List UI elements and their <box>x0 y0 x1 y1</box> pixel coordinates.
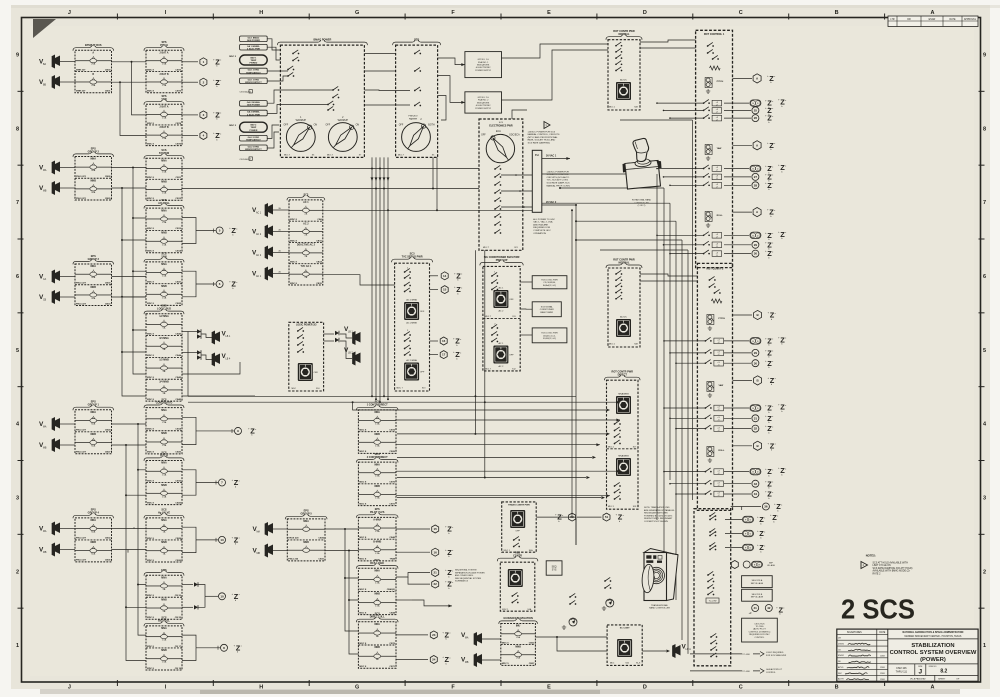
svg-text:1.5A: 1.5A <box>162 444 167 447</box>
connector hex PITCH rot1 <box>733 77 753 79</box>
svg-text:D: D <box>643 685 647 691</box>
svg-text:RCS LOGIC: RCS LOGIC <box>370 562 384 565</box>
svg-text:ECA: ECA <box>496 130 501 133</box>
svg-text:CB71: CB71 <box>389 666 395 668</box>
svg-text:1/2 MNA: 1/2 MNA <box>159 315 169 318</box>
translational hand controller <box>667 553 679 601</box>
svg-text:A: A <box>931 10 935 16</box>
svg-text:MDC 8: MDC 8 <box>147 198 155 200</box>
svg-text:50A: 50A <box>91 191 95 194</box>
wire <box>557 637 607 651</box>
switch panel ROT CONTR PWR NORMAL 2 <box>608 268 640 347</box>
svg-text:H: H <box>259 10 263 16</box>
svg-text:PNL5 22Y: PNL5 22Y <box>76 198 87 200</box>
svg-text:CB 17: CB 17 <box>175 646 182 648</box>
svg-text:BAT 1: BAT 1 <box>250 56 257 59</box>
wire <box>325 528 358 530</box>
svg-text:MNB: MNB <box>303 541 309 544</box>
svg-text:1/2 MNB: 1/2 MNB <box>159 359 169 362</box>
svg-text:1.5A: 1.5A <box>162 243 167 246</box>
wire <box>484 250 486 477</box>
wire <box>536 516 567 518</box>
wire <box>60 81 75 83</box>
svg-text:ON: ON <box>314 125 318 127</box>
svg-text:MDC 7: MDC 7 <box>485 369 492 371</box>
connector p51 <box>725 519 742 521</box>
svg-text:PNL5 22Y: PNL5 22Y <box>76 303 87 305</box>
svg-text:MDC 7: MDC 7 <box>485 316 492 318</box>
svg-text:MDC 1: MDC 1 <box>608 506 615 508</box>
svg-text:9: 9 <box>16 52 19 58</box>
connector a33 rot2 <box>724 483 751 485</box>
wire long bus I <box>397 477 586 479</box>
svg-text:CB24: CB24 <box>105 429 111 432</box>
svg-text:MDC 7: MDC 7 <box>327 154 334 156</box>
svg-text:CB30: CB30 <box>105 283 111 285</box>
output flag V LB 2 <box>353 352 361 366</box>
svg-text:G: G <box>355 10 359 16</box>
svg-text:SEP ULLAGE: SEP ULLAGE <box>751 582 764 585</box>
input flag VBB <box>52 75 60 89</box>
svg-text:CB23: CB23 <box>175 502 181 504</box>
wire <box>60 187 75 189</box>
wire <box>182 135 198 137</box>
svg-text:7: 7 <box>983 200 986 206</box>
svg-text:2 SCS: 2 SCS <box>841 593 915 625</box>
connector 26 rot1 <box>724 117 751 119</box>
connector 30 rot1 <box>724 253 751 255</box>
svg-text:REQUIRED FOR CMC: REQUIRED FOR CMC <box>749 634 770 636</box>
svg-text:MNB: MNB <box>161 541 167 544</box>
svg-text:SCHEMATICS: SCHEMATICS <box>455 580 469 583</box>
svg-text:CB44: CB44 <box>389 611 395 614</box>
svg-text:NOTE: TRANSLATION CMD: NOTE: TRANSLATION CMD <box>644 506 670 509</box>
svg-text:CONTROL DOGMETIC): CONTROL DOGMETIC) <box>749 631 771 633</box>
csol box <box>742 618 778 642</box>
svg-text:CA: CA <box>43 278 47 281</box>
svg-text:FOR SCS TAKEOVER: FOR SCS TAKEOVER <box>766 654 787 657</box>
svg-text:CB27: CB27 <box>105 452 111 454</box>
svg-text:MB: MB <box>43 552 47 554</box>
svg-text:MNB: MNB <box>374 485 380 488</box>
svg-text:(POWER): (POWER) <box>920 657 946 663</box>
svg-text:MNR 22Y: MNR 22Y <box>76 69 86 71</box>
svg-text:S4A: S4A <box>527 608 531 611</box>
svg-text:1.5A: 1.5A <box>162 296 167 299</box>
svg-text:LOGIC REQUIRED: LOGIC REQUIRED <box>766 652 784 654</box>
wire <box>60 444 75 446</box>
breaker block SCS PITCH <box>146 461 182 505</box>
svg-text:GROUP 5: GROUP 5 <box>301 513 313 516</box>
svg-text:CB40(2): CB40(2) <box>387 588 396 591</box>
svg-text:28: 28 <box>754 183 758 187</box>
svg-text:MDC 2: MDC 2 <box>229 125 237 127</box>
wire <box>640 47 696 49</box>
svg-text:CONTACTS NOT SHOWN: CONTACTS NOT SHOWN <box>644 520 668 523</box>
svg-text:ROTATIONAL HAND: ROTATIONAL HAND <box>632 199 652 202</box>
svg-text:1 CONTR/DIRECT: 1 CONTR/DIRECT <box>367 404 388 407</box>
svg-text:TO CMG: TO CMG <box>755 626 763 628</box>
power bus block EPS GROUP 4 <box>75 518 112 562</box>
svg-text:C3,C4,B3,B4,: C3,C4,B3,B4, <box>543 282 556 284</box>
svg-text:MDC: MDC <box>292 388 297 390</box>
label box GA 1 GYRO <box>240 68 268 74</box>
svg-text:CB43: CB43 <box>175 332 181 335</box>
svg-text:MNA: MNA <box>161 409 167 412</box>
svg-text:NATIONAL AERONAUTICS & SPAC: NATIONAL AERONAUTICS & SPACE ADMINISTRAT… <box>903 631 964 634</box>
svg-text:29: 29 <box>754 351 758 355</box>
switch panel ROT CONTROL PWR NORMAL 1 <box>608 40 640 110</box>
wire long bus C <box>323 209 533 211</box>
connector hex ROLL rot1 <box>733 211 753 213</box>
svg-text:12/68: 12/68 <box>880 667 885 669</box>
svg-text:AC 1/MNA: AC 1/MNA <box>406 299 417 302</box>
svg-text:J: J <box>68 10 71 16</box>
svg-text:MNB: MNB <box>91 433 97 436</box>
svg-text:6: 6 <box>983 274 986 280</box>
svg-text:Hg VALVE: Hg VALVE <box>158 512 170 515</box>
svg-text:CIRCUITS (SCS AUTO: CIRCUITS (SCS AUTO <box>547 176 570 179</box>
svg-text:FEC: FEC <box>838 673 843 675</box>
svg-text:CB: CB <box>43 299 47 301</box>
svg-text:CB34: CB34 <box>316 261 322 264</box>
svg-text:PSEUDO: PSEUDO <box>408 116 418 118</box>
svg-text:33: 33 <box>754 482 758 486</box>
svg-text:50A: 50A <box>91 276 95 279</box>
switch panel translation contacts <box>694 509 731 666</box>
svg-text:27: 27 <box>754 175 758 179</box>
svg-text:CB44: CB44 <box>175 354 181 357</box>
svg-text:IMU: IMU <box>516 625 521 628</box>
svg-text:25: 25 <box>754 109 758 113</box>
svg-text:CSOL RCS: CSOL RCS <box>754 623 765 625</box>
svg-text:B/D ROLL: B/D ROLL <box>158 620 170 623</box>
svg-text:32: 32 <box>754 427 758 431</box>
svg-text:ELECTRONICS PWR: ELECTRONICS PWR <box>489 124 513 127</box>
svg-text:MDC 1: MDC 1 <box>609 344 616 346</box>
wire <box>182 114 198 116</box>
svg-text:AC/DC: AC/DC <box>620 79 627 82</box>
wire long bus H <box>397 456 592 458</box>
connector b31 rot2 <box>724 428 751 430</box>
power bus block EPS GROUP 1 <box>75 410 112 454</box>
svg-text:MDC 1: MDC 1 <box>502 609 509 611</box>
wire <box>520 281 532 283</box>
label box BAT 1 <box>240 55 268 65</box>
svg-text:S4A: S4A <box>529 549 533 552</box>
svg-text:26: 26 <box>754 116 758 120</box>
svg-text:5: 5 <box>983 348 986 354</box>
svg-text:PNL5 22Y: PNL5 22Y <box>76 283 87 285</box>
svg-text:ROT CONTR 2: ROT CONTR 2 <box>706 268 724 271</box>
seq sys B box <box>742 589 773 601</box>
svg-text:CB31: CB31 <box>105 91 111 93</box>
wire bus lower <box>138 424 146 470</box>
svg-text:BB: BB <box>43 84 47 86</box>
svg-text:SYS: SYS <box>552 569 557 571</box>
svg-text:10: 10 <box>220 594 224 598</box>
svg-text:PITCH: PITCH <box>160 454 168 457</box>
breaker block EMS <box>146 575 182 619</box>
svg-text:CB72: CB72 <box>175 69 181 71</box>
svg-text:MDC 8: MDC 8 <box>359 482 367 484</box>
svg-text:MDC 1: MDC 1 <box>608 447 615 449</box>
svg-text:1.5A: 1.5A <box>162 275 167 278</box>
wire <box>60 276 75 278</box>
svg-text:SCS RATE DAMPING): SCS RATE DAMPING) <box>528 142 551 145</box>
wire <box>396 444 600 446</box>
input flag VMA <box>52 161 60 175</box>
svg-text:PITCH: PITCH <box>717 81 724 83</box>
svg-text:CB35: CB35 <box>105 560 111 562</box>
svg-text:3/4 MNB: 3/4 MNB <box>159 380 169 383</box>
svg-text:1.5A: 1.5A <box>375 581 380 584</box>
svg-text:8: 8 <box>983 126 986 132</box>
svg-text:26 VAC 1: 26 VAC 1 <box>546 155 557 158</box>
svg-text:RATE, SCS ATT HOLD AND: RATE, SCS ATT HOLD AND <box>528 139 556 142</box>
note triangle 2 <box>861 562 868 569</box>
svg-text:C: C <box>739 10 743 16</box>
connector p52 <box>725 533 742 535</box>
svg-text:PNL5 22Y: PNL5 22Y <box>76 560 87 562</box>
svg-text:MDC 8: MDC 8 <box>359 643 367 645</box>
svg-text:CB75: CB75 <box>175 143 181 145</box>
input flag V LB1 left <box>212 331 220 345</box>
svg-text:GEN POWER: GEN POWER <box>247 105 260 107</box>
connector pill YAW rot1 <box>724 168 749 170</box>
svg-text:25A: 25A <box>91 63 95 66</box>
svg-text:MNB: MNB <box>374 646 380 649</box>
svg-text:1.5A: 1.5A <box>162 192 167 195</box>
svg-text:MB: MB <box>43 447 47 449</box>
svg-text:MDC 5: MDC 5 <box>502 642 510 644</box>
label box GA 2 WHEEL <box>240 110 268 116</box>
connector hex YAW rot1 <box>733 144 753 146</box>
svg-text:AC 2: AC 2 <box>256 233 262 236</box>
svg-text:CONTR: CONTR <box>513 555 522 558</box>
svg-text:1.5A: 1.5A <box>375 444 380 447</box>
svg-text:SCS AUTO CONTROL: SCS AUTO CONTROL <box>547 173 570 176</box>
svg-text:CB70: CB70 <box>389 482 395 484</box>
svg-text:±26VDC POWER FOR SCS: ±26VDC POWER FOR SCS <box>528 131 556 133</box>
switch panel ELECTRONICS PWR <box>479 119 523 250</box>
svg-text:85A: 85A <box>535 154 540 157</box>
svg-text:1.5A: 1.5A <box>162 495 167 498</box>
svg-text:CONTROL SYSTEM OVERVIEW: CONTROL SYSTEM OVERVIEW <box>890 650 977 656</box>
svg-text:GROUP 2: GROUP 2 <box>88 150 100 153</box>
input flag V MA g5 <box>265 522 273 536</box>
svg-text:LM A: LM A <box>686 648 692 651</box>
connector a31 rot2 <box>724 417 751 419</box>
svg-text:MNA: MNA <box>374 463 380 466</box>
svg-text:COMPLETE GDC: COMPLETE GDC <box>533 230 551 232</box>
svg-text:CSM 106: CSM 106 <box>896 667 907 670</box>
svg-text:MDC 8: MDC 8 <box>359 429 367 431</box>
svg-text:AC 1: AC 1 <box>303 201 309 204</box>
svg-text:CB13: CB13 <box>175 228 181 230</box>
svg-text:MDC 8: MDC 8 <box>359 589 367 591</box>
svg-text:OFF: OFF <box>399 125 404 127</box>
svg-text:MDC 8: MDC 8 <box>147 480 155 482</box>
svg-text:A: A <box>92 52 94 55</box>
connector 51 <box>603 513 610 521</box>
svg-text:MNA: MNA <box>161 462 167 465</box>
svg-text:CONTROLLER: CONTROLLER <box>634 202 649 204</box>
svg-text:GA 1 WHEEL: GA 1 WHEEL <box>247 45 261 48</box>
svg-text:23: 23 <box>432 633 436 637</box>
axis section ROLL rot1 <box>706 212 710 216</box>
svg-text:GA 2 SIGNAL: GA 2 SIGNAL <box>247 101 261 104</box>
input flag V AC 1 <box>265 203 273 217</box>
svg-text:AC 1: AC 1 <box>498 342 504 345</box>
switch panel SIG CONDITIONER BIAS PWR <box>483 266 520 371</box>
svg-text:TR48: TR48 <box>390 558 396 561</box>
svg-text:MNR 22Y: MNR 22Y <box>76 91 86 93</box>
svg-text:1: 1 <box>16 643 19 649</box>
label box GA 1 GYRO <box>240 78 268 84</box>
svg-text:GA 2 GYRO: GA 2 GYRO <box>248 136 260 139</box>
connector 28 rot1 <box>724 184 751 186</box>
connector pill PITCH rot2 <box>724 340 749 342</box>
svg-text:MDC 8: MDC 8 <box>359 451 367 453</box>
svg-text:CB6: CB6 <box>317 219 322 221</box>
svg-text:AUTH: AUTH <box>838 678 844 681</box>
svg-text:MDC 8: MDC 8 <box>147 429 155 431</box>
svg-text:PILOT VLVS: PILOT VLVS <box>370 511 385 514</box>
svg-text:A-MNA: A-MNA <box>373 519 381 522</box>
svg-text:MDC 5: MDC 5 <box>502 663 510 665</box>
scan shadow bottom edge <box>40 689 960 694</box>
svg-text:SEQUENTIAL SYSTEM: SEQUENTIAL SYSTEM <box>455 569 477 572</box>
connector 9 with bracket <box>182 417 196 431</box>
connector 27 rot1 <box>724 176 751 178</box>
svg-text:3: 3 <box>16 495 19 501</box>
wire <box>575 205 577 545</box>
svg-text:2: 2 <box>983 569 986 575</box>
svg-text:MDC 8: MDC 8 <box>147 123 155 125</box>
connector pill YAW rot2 <box>724 407 749 409</box>
svg-text:DATE: DATE <box>879 631 885 634</box>
svg-text:TEMP DETECT: TEMP DETECT <box>246 140 261 142</box>
output box RCS LOGIC PWR upper <box>532 276 567 289</box>
diode pair LB4 <box>197 350 201 354</box>
svg-text:ERROR DETECT: ERROR DETECT <box>245 149 262 151</box>
svg-text:AC 2/MNB: AC 2/MNB <box>406 322 417 325</box>
breaker block DIRECT ULL <box>358 622 396 668</box>
svg-text:MNB: MNB <box>161 181 167 184</box>
svg-text:TC-GW: TC-GW <box>742 654 750 656</box>
svg-text:MDC 8: MDC 8 <box>147 538 155 540</box>
svg-text:NORMAL: NORMAL <box>619 33 630 36</box>
svg-text:50A: 50A <box>91 423 95 426</box>
svg-text:FDAI NO. 1: FDAI NO. 1 <box>478 61 489 64</box>
svg-text:MDC 8: MDC 8 <box>290 262 298 264</box>
svg-text:MDC 1: MDC 1 <box>609 107 616 109</box>
svg-text:MNA: MNA <box>161 576 167 579</box>
breaker block SPS PITCH <box>146 50 182 93</box>
svg-text:OFF: OFF <box>420 311 425 313</box>
switch panel BMAG POWER <box>280 45 364 157</box>
svg-text:DIRECT ULL: DIRECT ULL <box>370 616 385 619</box>
svg-text:MNB: MNB <box>374 433 380 436</box>
connector a29 rot2 <box>724 352 751 354</box>
svg-text:MA: MA <box>465 636 469 639</box>
svg-text:2: 2 <box>16 569 19 575</box>
svg-text:MNA: MNA <box>161 263 167 266</box>
svg-text:21: 21 <box>434 571 438 575</box>
wire <box>345 529 358 578</box>
output box SCS SIGNAL COND <box>532 302 561 317</box>
svg-text:±26VDC POWER FOR: ±26VDC POWER FOR <box>547 171 570 173</box>
svg-text:DR: DR <box>907 19 911 21</box>
wire <box>132 62 147 115</box>
svg-text:GROUP 4: GROUP 4 <box>88 512 100 515</box>
svg-text:AC 1: AC 1 <box>256 275 262 278</box>
wire <box>60 296 75 298</box>
svg-text:MNA/MNB: MNA/MNB <box>618 455 629 458</box>
svg-text:EPS/BAT BUS: EPS/BAT BUS <box>85 44 102 47</box>
svg-text:9: 9 <box>983 52 986 58</box>
svg-text:RATE 2: RATE 2 <box>873 573 882 576</box>
svg-text:SCS RATE DAMP, SCS: SCS RATE DAMP, SCS <box>547 182 571 185</box>
svg-text:MNA: MNA <box>161 209 167 212</box>
svg-text:CB14: CB14 <box>175 250 181 253</box>
svg-text:AC 2: AC 2 <box>498 365 504 368</box>
svg-text:SEP: SEP <box>769 563 774 565</box>
connector hex55 <box>731 561 738 569</box>
svg-text:LB 2: LB 2 <box>348 352 353 354</box>
svg-text:ENGR: ENGR <box>929 19 936 21</box>
svg-text:OPERATION: OPERATION <box>533 232 546 235</box>
svg-text:SEE SEQUENTIAL SYSTEM: SEE SEQUENTIAL SYSTEM <box>455 577 481 580</box>
svg-text:1.5A: 1.5A <box>162 421 167 424</box>
svg-text:GDC/ECA: GDC/ECA <box>509 134 520 137</box>
wire <box>112 444 147 446</box>
svg-text:AND OTHER USES.: AND OTHER USES. <box>455 574 474 577</box>
svg-text:CB14: CB14 <box>175 428 181 431</box>
svg-text:1.5A: 1.5A <box>162 221 167 224</box>
svg-text:SEB: SEB <box>414 38 419 41</box>
wire long bus F <box>353 402 606 410</box>
svg-text:MDC 2: MDC 2 <box>229 56 237 58</box>
svg-text:AND H&B ARE: AND H&B ARE <box>533 223 548 226</box>
connector pill ROLL rot1 <box>724 234 749 236</box>
svg-text:ALL POWER TO GDC: ALL POWER TO GDC <box>533 218 555 221</box>
connector 1 <box>200 58 207 66</box>
svg-text:12/68: 12/68 <box>880 673 885 675</box>
svg-text:1.5A: 1.5A <box>162 137 167 140</box>
svg-text:2 CONTR/DIRECT: 2 CONTR/DIRECT <box>367 456 388 459</box>
svg-text:GP/ NO. 2 &: GP/ NO. 2 & <box>478 97 490 99</box>
connector 23 <box>396 634 428 636</box>
svg-text:CONTROL: CONTROL <box>766 672 777 674</box>
wire <box>60 549 75 551</box>
svg-text:CB32: CB32 <box>105 538 111 540</box>
wire <box>187 332 189 397</box>
svg-text:SYSTEM: SYSTEM <box>159 152 169 155</box>
svg-text:CB29: CB29 <box>175 538 181 540</box>
svg-text:LOGIC BUS: LOGIC BUS <box>157 308 171 311</box>
label box BAT 2 <box>240 122 268 132</box>
svg-text:GA 1 BMAG: GA 1 BMAG <box>248 37 260 40</box>
svg-text:1.5A: 1.5A <box>375 475 380 478</box>
svg-text:8: 8 <box>16 126 19 132</box>
svg-text:CB 50: CB 50 <box>175 595 182 597</box>
svg-text:SEQ: SEQ <box>552 567 557 569</box>
svg-text:TVC, SCS ATT CONT,: TVC, SCS ATT CONT, <box>547 179 569 182</box>
wire harness bottom taps <box>567 517 576 545</box>
connector 4 <box>200 132 207 140</box>
